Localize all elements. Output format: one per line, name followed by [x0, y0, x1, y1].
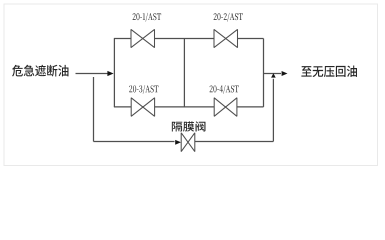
label 20-4/AST [210, 85, 239, 94]
valve 20-1/AST [131, 29, 155, 47]
wire: middle tie line [183, 39, 185, 107]
node: inlet label 危急遮断油 [12, 65, 68, 77]
valve 20-2/AST [214, 29, 238, 47]
arrow: bypass joins outlet [271, 73, 276, 77]
arrow: outlet [282, 71, 288, 76]
wire: manifold left header [113, 39, 115, 107]
node: outlet label 至无压回油 [301, 65, 357, 77]
valve 隔膜阀 diaphragm [181, 133, 195, 152]
arrow: into diaphragm valve [175, 140, 181, 145]
label 20-3/AST [129, 85, 158, 94]
wire: bottom branch [114, 106, 264, 108]
wire: inlet line [76, 73, 108, 75]
label 20-2/AST [214, 13, 243, 22]
label 20-1/AST [133, 13, 162, 22]
valve 20-3/AST [131, 98, 154, 117]
valve 20-4/AST [214, 98, 237, 117]
label 隔膜阀 [172, 121, 206, 131]
wire: bypass bottom left [94, 141, 175, 143]
wire: bypass drop [93, 77, 95, 142]
wire: outlet line [264, 73, 282, 75]
wire: bypass riser [272, 79, 274, 142]
wire: bypass bottom right [195, 141, 273, 143]
arrow: inlet into manifold [107, 71, 113, 76]
wire: top branch [114, 38, 264, 40]
wire: manifold right header [263, 39, 265, 107]
